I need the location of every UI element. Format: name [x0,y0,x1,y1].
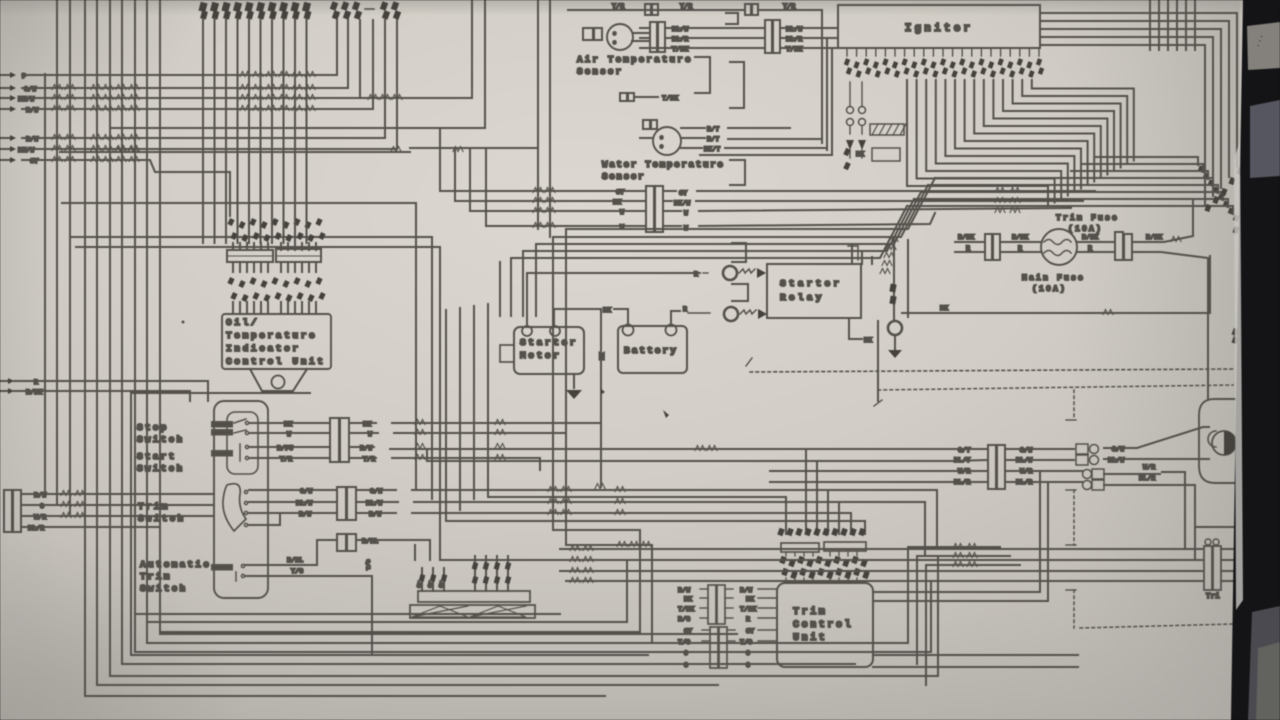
svg-text:Starter: Starter [780,278,842,289]
svg-text:W/R: W/R [1143,464,1155,471]
stop/start wires to connector [249,422,330,424]
svg-text:BK/W: BK/W [674,200,690,207]
svg-text:GY: GY [679,190,687,197]
dashed enclosure around trim area [878,385,1233,390]
wire BK/W 2nd horizontal [22,20,397,149]
inner rocker housing [227,412,258,474]
svg-text:Y/R: Y/R [280,456,292,463]
svg-text:o: o [660,144,663,150]
trim cable 4-wire bundle [560,548,1202,550]
air temperature sensor body [607,24,633,50]
svg-text:BL/R: BL/R [954,479,970,486]
fuse right connector [1115,232,1123,260]
trim control unit stub wires left [700,588,708,590]
wires to bullet connectors [1005,448,1074,450]
svg-text:o: o [613,31,616,37]
svg-text:BK: BK [284,421,292,428]
svg-text:R/BK: R/BK [1082,234,1098,241]
svg-text:Main Fuse: Main Fuse [1022,274,1085,283]
wire bundle rows joining nest [440,559,627,561]
oil/temperature indicator control unit box [222,314,331,369]
wires northeast of trim unit descending [907,547,909,643]
meter connector lower label row [227,277,234,285]
svg-text:R: R [966,245,970,252]
svg-text:T/BK: T/BK [678,606,694,613]
svg-text:Control: Control [793,619,853,631]
hatches sensor wires crossing trunk [533,188,543,193]
svg-text:R/BK: R/BK [958,234,974,241]
meter connector pins lower [232,262,234,272]
svg-text:R/BK: R/BK [1012,234,1028,241]
stop/start connector [330,418,339,462]
svg-text:BK: BK [856,151,864,158]
sensor wires running right to far right side [663,190,676,192]
svg-text:Trim: Trim [140,571,172,582]
trim control unit left connector bars [708,585,716,624]
igniter box U1 [838,5,1040,48]
svg-text:Tri: Tri [1206,593,1220,601]
svg-text:Unit: Unit [793,632,827,644]
igniter left side 3-wire connector [650,22,657,52]
BK labels under igniter [843,148,850,156]
wires to trim motor [1104,427,1209,448]
svg-text:Switch: Switch [138,513,185,524]
left mid horizontal wire y237 [70,236,432,238]
svg-text:W: W [684,210,688,217]
wire vertical x908 from mid [907,240,909,317]
wire G/W horizontal [22,20,348,88]
svg-text:Stop: Stop [137,422,169,433]
left trunk vertical wires [44,74,46,494]
hatches near 620-650 [617,542,627,547]
water sensor connector [646,186,654,232]
svg-text:Air Temperature: Air Temperature [577,54,693,65]
svg-text:R: R [746,616,750,623]
svg-text:GY: GY [684,628,692,635]
svg-text:W/R: W/R [958,468,970,475]
svg-text:BK: BK [603,307,611,314]
wire relay bottom to dashed enclosure [877,321,879,401]
vertical BK main line [600,309,602,487]
wires from labels down to oil control unit [232,302,234,314]
starter motor terminals [522,326,532,336]
wire GY horizontal with jog [22,160,230,216]
svg-text:Switch: Switch [140,583,187,594]
bracket below water sensor wires [730,160,745,185]
trim switch lever [223,484,246,531]
trim motor inner circle [1212,431,1236,455]
svg-text:G: G [746,662,750,669]
dashed separator line mid right [750,369,1233,372]
trim control unit upper connector labels below [779,556,787,564]
svg-text:Indicator: Indicator [226,343,301,354]
switch assembly rounded box [214,401,268,598]
svg-text:R: R [1088,245,1092,252]
wires past cable connector to edge [1221,548,1237,550]
dark background right of paper edge [1231,0,1280,720]
svg-text:Temperature: Temperature [226,330,317,341]
wire from fuse to R/BK riser [1132,200,1193,242]
svg-text:R/BK: R/BK [1146,234,1162,241]
svg-text:GY: GY [746,628,754,635]
igniter pin stubs and rotated labels [846,48,848,56]
fuse left connector [985,234,992,260]
wire y527 to edge [1195,526,1237,528]
svg-text:T/G: T/G [678,639,690,646]
wires W/R BL/R turning down [1104,473,1160,475]
svg-text:BK: BK [599,352,606,360]
svg-text:Oil/: Oil/ [226,317,259,328]
svg-text:Trim Fuse: Trim Fuse [1056,214,1119,223]
spark plug symbols [846,140,854,150]
wires under trim unit [873,654,1078,656]
wires water sensor right B/T R/T BK/T [681,127,705,129]
svg-text:W: W [287,431,291,438]
svg-text:R/T: R/T [707,136,719,143]
trim switch contacts [244,490,247,493]
wire Y/R top [568,9,745,11]
starter motor ground [573,374,575,388]
left edge connector arrows P G/W BK/W R/W [0,74,10,76]
wires into trim 4-wire connector [953,448,986,450]
wires into trim control connectors from northwest [446,521,865,534]
wires y461 step [695,446,705,451]
svg-text:O: O [746,650,750,657]
svg-text:o: o [613,40,616,46]
hatches trim cable west [570,546,580,551]
igniter 3-wire second connector [765,20,772,53]
svg-text:Y/G: Y/G [291,568,303,575]
rows 471 482 to trim connector [770,470,986,472]
svg-text:BK: BK [864,337,872,344]
wire vertical x550 to y237 [549,0,551,237]
trim sensor body with cross bracing [410,605,535,618]
Y/G wire from auto trim [245,576,372,655]
bracket right of air sensor [695,57,710,93]
verticals from oil area descending to switch rows [415,203,417,490]
hatches on long sensor wires [995,188,1005,193]
paper edge highlight [1234,140,1243,610]
wire P horizontal [22,20,337,75]
gray patch right mid [1250,100,1280,178]
wire top-center vertical x472 elbow [362,0,472,98]
wires from trim unit right side [873,471,1040,592]
svg-text:BL/W: BL/W [296,500,312,507]
svg-text:B/W: B/W [678,587,690,594]
hatches stop/start wires [415,420,425,425]
diagonal jog down to west bundle [566,178,935,316]
small block under igniter [872,148,900,161]
trim switch connector [337,487,346,520]
wire R down to trim motor area [1132,252,1208,399]
switch housing outer frame [131,393,648,655]
wires into igniter left edge [782,27,838,29]
svg-text:R/G: R/G [678,616,690,623]
battery terminals [623,325,634,336]
stop/start wires east to trunk [349,422,376,424]
eyelet BK right of relay [888,321,902,335]
wire starter motor BK jumper [554,309,600,326]
left mid horizontal wire y203 [62,202,416,204]
svg-text:Battery: Battery [624,345,678,356]
svg-text:G/W: G/W [300,488,312,495]
hatches on y98 [368,95,378,100]
bracket marks above relay right [848,246,858,260]
horizontal rows under arches [1095,157,1198,165]
fuse wires right [1077,241,1113,243]
igniter spark outputs circles [847,107,854,114]
starter relay eyelet input 1 [703,272,708,274]
trim motor body [1199,399,1260,483]
svg-text:T/BK: T/BK [662,95,678,102]
hatches on diagonal jog [888,237,898,242]
trim wires east [356,489,396,491]
first Y/R inline connector [645,4,651,15]
svg-text:Y/R: Y/R [612,3,624,10]
sensor 4-wire horizontals into connector [440,128,644,191]
trim control unit box U2 [777,583,873,667]
svg-text:Water Temperature: Water Temperature [602,159,725,170]
meter connector upper label row [227,218,234,226]
svg-text:R/PU: R/PU [277,445,293,452]
fuse wires left [955,241,983,243]
verticals descending into relay top [851,244,853,264]
start switch contacts [212,451,232,456]
trunk verticals descending through switch area [565,229,567,545]
trim motor small arc [1208,431,1216,447]
svg-text:Sensor: Sensor [577,66,623,77]
svg-text:T/G: T/G [740,639,752,646]
starter relay box K1 [767,264,861,318]
left edge connector 4-wire [4,490,12,532]
brackets left of starter relay [732,243,746,262]
oil unit mounting tab with hole [250,369,307,391]
svg-text:R: R [1018,245,1022,252]
wire Y/R to igniter area [758,10,822,139]
svg-text:Y/R: Y/R [783,3,795,10]
hatch marks left bundle [52,85,62,90]
left edge connector arrows R/W BK/W GY [0,137,10,139]
edge label blobs right side [1232,226,1239,234]
wire T/BK small plug [620,93,627,101]
wire R/W horizontal [22,20,373,109]
wires east from verticals [908,546,1000,548]
wire battery to relay [671,311,680,325]
wires from left 4-wire connector [21,493,214,495]
top center rotated wire labels [330,1,338,11]
trim switch wires to connector [249,489,337,491]
svg-text:R/W: R/W [299,511,311,518]
svg-text:BK: BK [684,596,692,603]
svg-text:G: G [684,662,688,669]
bottom-left nested corner wires going right [135,613,560,615]
stubs into trim control unit box [758,588,777,590]
stop switch contacts [212,422,232,427]
svg-text:Switch: Switch [137,463,184,474]
hatches on ne wires [953,544,963,549]
svg-text:Sensor: Sensor [602,171,645,182]
svg-text:Motor: Motor [520,350,562,361]
bracket for T/BK [730,62,744,108]
svg-text:BK: BK [940,305,948,312]
trim control unit upper connector labels top [777,528,785,536]
svg-text:R/BL: R/BL [287,557,303,564]
svg-text:(10A): (10A) [1068,225,1103,234]
ground under eyelet BK [894,335,896,350]
trim 4-wire connector [988,445,996,489]
hatches left 4wire [61,491,71,496]
water temperature sensor body [653,127,681,155]
wire long horizontal y152 left part [60,151,410,153]
wire BK main to right riser [902,256,1210,313]
wires bottom bundle from switch frame [131,654,648,656]
wire relay bottom to eyelet BK [849,318,862,339]
wire R/W 2nd horizontal [22,20,385,138]
svg-text:Relay: Relay [780,292,825,303]
svg-text:Start: Start [137,451,177,462]
wire long horizontal y148 [537,0,539,229]
igniter pin cascade arches [907,80,1048,206]
meter connector pins upper [232,243,234,250]
svg-text:Y/R: Y/R [680,3,692,10]
svg-text:T/G: T/G [365,559,372,570]
R/BL wire from auto trim [245,540,337,565]
wires from R R/BK east [14,381,208,401]
wire BK/W horizontal [22,20,360,98]
starter motor side lug [500,345,514,362]
hatches on y148-152 [115,147,125,152]
stubs from upper connector into unit [785,552,787,556]
svg-text:Control Unit: Control Unit [226,356,326,367]
bullet connectors upper pair [1076,444,1088,454]
svg-text:BL/R: BL/R [1139,475,1155,482]
R/BL wire east [356,540,430,560]
svg-text:T/BK: T/BK [740,606,756,613]
svg-text:BK/T: BK/T [704,146,720,153]
svg-text:Trim: Trim [793,606,827,618]
speck marks [663,410,669,418]
engine ground hatched bar [870,124,904,135]
meter connector bar 1 [227,250,273,262]
wires air sensor into connector [633,32,648,34]
igniter east wires to right edge descents [1040,13,1237,167]
wires from labels running right [728,127,790,129]
left edge connector R R/BK [0,380,8,382]
top edge label row and meter riser wires [198,2,207,13]
vertical BL/R wire above eyelet [893,240,895,321]
dash end brackets [1066,419,1076,421]
hatches trim wires [548,487,558,492]
trim sensor wires down [421,568,423,591]
Y/R inline connector [745,4,751,15]
air temperature sensor plug [583,28,593,40]
svg-text:Igniter: Igniter [905,23,974,35]
gray strip right lower [1248,606,1280,720]
trim cable connector right [1204,546,1212,590]
trim control unit upper connector bars [781,543,819,552]
left mid horizontal wire y240 [76,246,440,248]
svg-text:R: R [683,306,687,313]
R/BL connector separate [337,534,346,551]
small bracket above igniter wires [726,13,738,24]
svg-text:Starter: Starter [520,337,578,348]
svg-text:O: O [684,650,688,657]
svg-text:B/W: B/W [740,587,752,594]
svg-text:BK: BK [746,596,754,603]
fuse body circle [1041,229,1077,265]
svg-text:B/T: B/T [707,126,719,133]
bullet connectors lower pair [1083,470,1092,479]
svg-text:Switch: Switch [137,434,184,445]
far right vertical wires from top edge [1149,0,1151,50]
svg-text:Automatic: Automatic [140,559,211,570]
automatic trim contacts [212,565,232,570]
battery box BT1 [618,326,687,373]
wire starter motor to relay R [527,273,700,326]
svg-text:(10A): (10A) [1032,285,1067,294]
water temp sensor plug [643,120,650,129]
wires to sensor from west [414,545,416,560]
gray patch upper right [1247,22,1280,70]
trim sensor connector bar [418,591,530,602]
wire top-center vertical x485 elbow [111,0,485,128]
svg-text:Trim: Trim [138,501,170,512]
starter motor box M1 [514,327,584,374]
meter connector bar 2 [276,249,321,262]
svg-text:o: o [660,135,663,141]
starter relay eyelet input 2 [688,312,710,314]
